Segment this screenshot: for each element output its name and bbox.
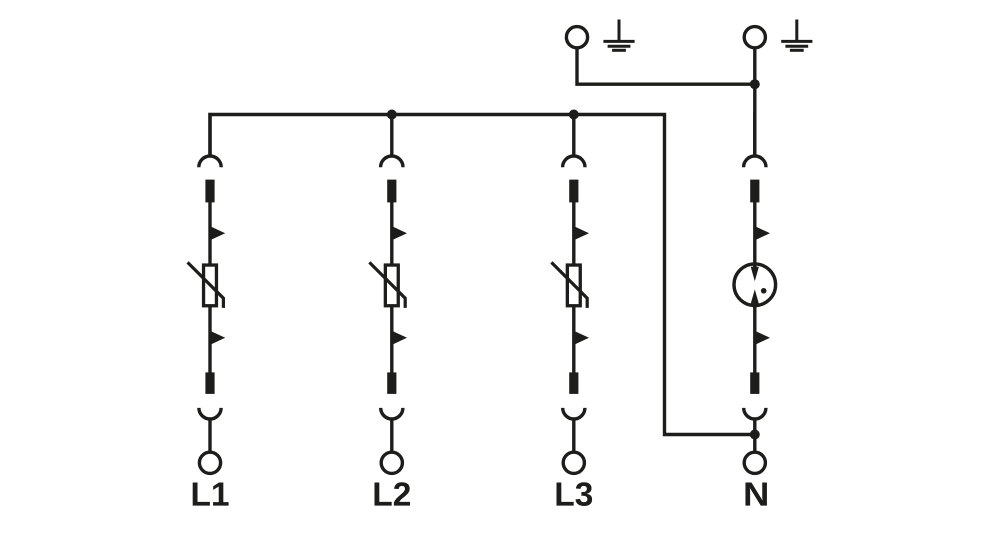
contact pin (lower) L1 <box>205 372 214 394</box>
wire: lower cup through junction to terminal N <box>753 420 756 453</box>
wire: lower cup to terminal L1 <box>208 420 211 453</box>
plug-in disconnect contact (upper arc) L3 <box>563 156 585 167</box>
terminal circle L2 <box>381 452 402 473</box>
junction node: PE link joins N-PE path <box>750 79 760 89</box>
sparkover arrow (lower) L2 <box>392 331 408 345</box>
label L2 <box>374 482 410 505</box>
varistor RV1 diagonal stroke <box>188 262 224 308</box>
wire: protective element to lower pin L2 <box>390 307 393 373</box>
plug-in disconnect contact (upper arc) L1 <box>199 156 221 167</box>
label L3 <box>556 482 592 506</box>
wire: upper pin to protective element L3 <box>572 202 575 265</box>
wire: right PE terminal down to gas discharge tube path <box>753 48 756 156</box>
plug-in disconnect contact (lower cup arc) L1 <box>199 408 221 419</box>
terminal circle N <box>744 452 765 473</box>
contact pin (upper) L2 <box>387 180 396 203</box>
wire: lower cup to terminal L2 <box>390 420 393 453</box>
contact pin (upper) L1 <box>205 180 214 203</box>
varistor RV3 (L3-N) body <box>567 265 580 306</box>
varistor RV2 diagonal stroke <box>369 262 405 308</box>
sparkover arrow (upper) L3 <box>574 226 590 240</box>
varistor RV1 (L1-N) body <box>204 265 217 306</box>
plug-in disconnect contact (lower cup arc) L3 <box>563 408 585 419</box>
ground symbol (right) <box>781 20 812 51</box>
wire: upper pin to protective element L2 <box>390 202 393 265</box>
wire: left PE terminal down and across to N-PE path <box>577 48 755 84</box>
wire: protective element to lower pin L3 <box>572 307 575 373</box>
contact pin (lower) L3 <box>569 372 578 394</box>
plug-in disconnect contact (lower cup arc) N <box>744 408 766 419</box>
wire: bus to plug contact L3 <box>572 113 575 157</box>
contact pin (upper) N <box>750 180 759 203</box>
terminal circle L1 <box>199 452 220 473</box>
GDT lower electrode shaft <box>753 302 757 308</box>
GDT lower electrode arrow (pointing up) <box>751 289 759 303</box>
contact pin (lower) N <box>750 372 759 394</box>
junction node: L2 on bus <box>387 110 397 120</box>
GDT upper electrode arrow (pointing down) <box>751 267 759 281</box>
contact pin (lower) L2 <box>387 372 396 394</box>
junction node: bus link joins N terminal <box>750 430 760 440</box>
wire: upper pin to protective element L1 <box>208 202 211 265</box>
terminal circle PE (right) <box>744 27 765 48</box>
wire: bus to plug contact L1 <box>208 113 211 157</box>
label L1 <box>193 483 229 506</box>
sparkover arrow (lower) N <box>755 331 771 345</box>
wire: bus to plug contact L2 <box>390 113 393 157</box>
wire: protective element to lower pin N <box>753 307 756 374</box>
GDT gas-filled indicator dot <box>761 288 767 294</box>
sparkover arrow (upper) N <box>755 226 771 240</box>
wire: upper pin to protective element N <box>753 202 756 265</box>
gas discharge tube F4 (N-PE) envelope circle <box>734 264 776 306</box>
plug-in disconnect contact (upper arc) N <box>744 156 766 167</box>
junction node: L3 on bus <box>569 110 579 120</box>
sparkover arrow (lower) L1 <box>210 331 226 345</box>
terminal circle PE (left) <box>566 27 587 48</box>
varistor RV2 (L2-N) body <box>385 265 398 306</box>
terminal circle L3 <box>563 452 584 473</box>
plug-in disconnect contact (upper arc) L2 <box>381 156 403 167</box>
contact pin (upper) L3 <box>569 180 578 203</box>
sparkover arrow (upper) L1 <box>210 226 226 240</box>
ground symbol (left) <box>603 20 634 51</box>
label N <box>745 483 766 506</box>
sparkover arrow (lower) L3 <box>574 331 590 345</box>
wire: protective element to lower pin L1 <box>208 307 211 373</box>
wire: bus to plug contact N <box>753 113 756 157</box>
sparkover arrow (upper) L2 <box>392 226 408 240</box>
varistor RV3 diagonal stroke <box>551 262 587 308</box>
plug-in disconnect contact (lower cup arc) L2 <box>381 408 403 419</box>
wire: lower cup to terminal L3 <box>572 420 575 453</box>
GDT upper electrode shaft <box>753 263 757 269</box>
wire: common bus L1-L2-L3 tops, down and across to N junction <box>210 115 755 435</box>
